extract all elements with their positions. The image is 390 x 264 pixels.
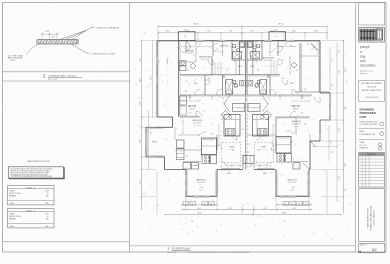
svg-text:52'-0": 52'-0" [337,128,339,132]
svg-text:76: 76 [191,221,193,223]
svg-text:a: a [360,50,362,54]
svg-text:IMPORTANT NOTES: IMPORTANT NOTES [28,160,50,163]
svg-text:and: and [360,59,366,63]
svg-text:CONT.: CONT. [10,60,16,62]
svg-text:12'-4": 12'-4" [140,58,142,62]
svg-text:11'-0": 11'-0" [290,190,294,192]
svg-text:1849: 1849 [45,226,49,228]
svg-text:CLO: CLO [253,108,256,110]
svg-text:SUITE 204: SUITE 204 [367,87,376,89]
svg-text:18'-6": 18'-6" [343,163,345,167]
svg-text:6'-10": 6'-10" [196,99,200,101]
svg-text:LIVING: LIVING [9,190,15,192]
svg-text:25'-6": 25'-6" [140,78,142,82]
svg-text:AUSTIN, TEXAS 78702: AUSTIN, TEXAS 78702 [362,89,381,92]
svg-text:1/2": 1/2" [52,37,55,39]
svg-text:day: day [360,54,366,58]
svg-text:UNIT 2: UNIT 2 [26,210,36,212]
svg-text:9'-0" CLG: 9'-0" CLG [293,126,298,128]
svg-text:1207 SF: 1207 SF [293,108,298,110]
svg-text:LIVING ROOM: LIVING ROOM [192,120,203,122]
svg-text:BEDROOM #2: BEDROOM #2 [288,180,298,182]
svg-text:10'-0": 10'-0" [258,166,262,168]
svg-text:10'-8": 10'-8" [283,123,287,125]
svg-text:ROBLE CONSTRUCTION: ROBLE CONSTRUCTION [360,122,378,124]
svg-text:UNIT #1: UNIT #1 [188,106,197,108]
svg-text:11'-0": 11'-0" [292,208,296,210]
svg-text:480: 480 [46,219,49,221]
svg-text:8'-2": 8'-2" [337,51,339,54]
svg-text:38'-4": 38'-4" [282,213,287,215]
svg-text:2'-8": 2'-8" [184,30,187,32]
svg-text:17'-6": 17'-6" [343,68,345,72]
svg-text:ENTRY: ENTRY [274,36,278,38]
svg-text:25'-6": 25'-6" [151,76,153,80]
svg-text:9'-2": 9'-2" [330,59,332,62]
svg-text:UNIT #2: UNIT #2 [291,106,300,108]
svg-text:1/4" = 1'-0": 1/4" = 1'-0" [360,145,368,147]
svg-text:38'-4": 38'-4" [278,23,283,25]
svg-text:FRONT PORCH: FRONT PORCH [9,193,22,195]
svg-text:10'-8": 10'-8" [210,123,214,125]
svg-text:11'-0": 11'-0" [197,208,201,210]
svg-text:FOR:: FOR: [360,115,367,119]
svg-text:SHEET NO.: SHEET NO. [360,245,368,247]
svg-text:8'-8": 8'-8" [140,101,142,104]
svg-text:10'-2" X 11'-0": 10'-2" X 11'-0" [288,182,297,184]
svg-text:A2: A2 [372,247,378,252]
svg-text:KIT: KIT [195,165,197,167]
svg-text:ENTRY: ENTRY [184,36,188,38]
svg-text:42: 42 [47,193,49,195]
svg-text:10'-2": 10'-2" [140,180,142,184]
svg-text:LIVING ROOM: LIVING ROOM [291,121,302,123]
svg-text:6'-2": 6'-2" [151,131,153,134]
svg-text:(512) 478-0444: (512) 478-0444 [365,97,377,99]
svg-text:5'-4" X 6'-0": 5'-4" X 6'-0" [187,52,194,54]
svg-text:38'-4": 38'-4" [197,213,202,215]
svg-text:planners: planners [360,73,368,75]
svg-text:11'-0": 11'-0" [228,208,232,210]
svg-text:9'-0": 9'-0" [343,106,345,110]
svg-text:14'-0" X 16'-4": 14'-0" X 16'-4" [292,123,301,125]
svg-text:10'-2" X 11'-0": 10'-2" X 11'-0" [197,182,206,184]
svg-text:LIVING: LIVING [9,213,15,215]
svg-text:1207: 1207 [45,190,49,192]
svg-text:1849: 1849 [45,203,49,205]
svg-text:CLO: CLO [237,108,240,110]
svg-text:2027 EAST RIO GRANDE: 2027 EAST RIO GRANDE [361,82,383,85]
svg-text:3 1/2": 3 1/2" [45,31,50,33]
svg-text:11'-0": 11'-0" [199,190,203,192]
svg-text:9'-2": 9'-2" [250,31,254,33]
svg-text:42: 42 [47,216,49,218]
svg-text:1207 SF: 1207 SF [189,108,194,110]
svg-text:KIT: KIT [290,142,292,144]
svg-text:UNIT 1: UNIT 1 [26,187,36,189]
svg-text:1: 1 [167,247,169,251]
svg-text:associates: associates [360,64,376,68]
svg-text:6'-0": 6'-0" [330,84,332,87]
svg-text:NEW DUPLEX FOR: NEW DUPLEX FOR [368,208,370,228]
svg-text:FLOOR PLAN: FLOOR PLAN [172,248,190,251]
svg-text:11'-0": 11'-0" [292,31,296,33]
svg-text:8'-6": 8'-6" [229,31,233,33]
svg-text:2 X 4 WD STUDS @16" OC STGRD: 2 X 4 WD STUDS @16" OC STGRD [90,53,116,55]
svg-text:1207: 1207 [45,213,49,215]
svg-text:11'-6" X 13'-2": 11'-6" X 13'-2" [201,59,210,61]
svg-text:LOT 17 UNIT 16: LOT 17 UNIT 16 [374,210,376,226]
svg-text:FRONT PORCH: FRONT PORCH [9,216,22,218]
svg-text:12'-6": 12'-6" [194,130,198,132]
svg-text:DINING: DINING [229,147,234,149]
svg-text:11'-6" X 13'-2": 11'-6" X 13'-2" [264,60,273,62]
svg-text:38'-4": 38'-4" [193,23,198,25]
svg-text:BEDROOM #2: BEDROOM #2 [197,180,207,182]
svg-text:11'-0": 11'-0" [337,176,339,180]
svg-text:6'-4": 6'-4" [330,151,332,154]
svg-text:10'-4": 10'-4" [314,31,318,33]
svg-text:ROBLE CONSTRUCTION: ROBLE CONSTRUCTION [371,205,373,230]
svg-text:10'-4": 10'-4" [166,31,170,33]
svg-text:11'-0": 11'-0" [263,208,267,210]
svg-text:10'-0": 10'-0" [230,166,234,168]
svg-text:1/4" = 1'-0": 1/4" = 1'-0" [167,252,176,254]
svg-text:6'-10": 6'-10" [261,99,265,101]
svg-text:LOT 17 BLK F SECTION 2: LOT 17 BLK F SECTION 2 [360,124,379,126]
svg-text:joseph: joseph [359,45,370,49]
svg-text:10'-0" X 11'-6": 10'-0" X 11'-6" [260,149,268,151]
svg-text:14'-6": 14'-6" [140,139,142,143]
svg-text:17: 17 [284,221,286,223]
svg-text:480: 480 [46,196,49,198]
svg-text:DINING: DINING [261,147,266,149]
svg-text:1/2" = 1'-0": 1/2" = 1'-0" [48,79,58,81]
svg-text:2'-8": 2'-8" [275,30,278,32]
svg-text:COMMON WALL DETAIL: COMMON WALL DETAIL [48,74,77,77]
svg-text:20'-2": 20'-2" [337,70,339,74]
svg-text:14'-0" X 16'-4": 14'-0" X 16'-4" [193,122,202,124]
svg-text:4'-6": 4'-6" [343,189,345,192]
svg-text:PORCH: PORCH [152,142,157,144]
